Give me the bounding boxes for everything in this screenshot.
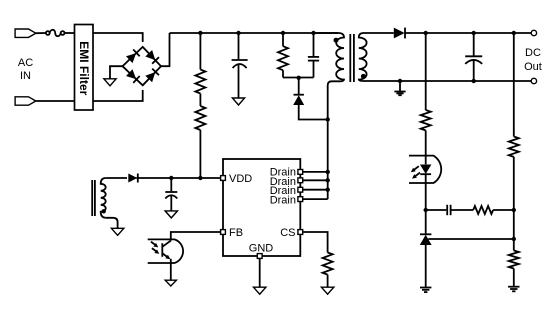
wire EMI top out to bridge top [93,33,143,42]
node startup join [198,176,202,180]
svg-text:FB: FB [229,227,243,239]
node snubber-diode junction [297,76,301,80]
pin GND [257,254,262,259]
resistor R5 LED series [421,110,431,130]
wire aux top to diode [106,177,127,179]
node VDD cap junction [169,176,173,180]
ground (primary, aux) [111,228,123,235]
optocoupler U2 LED side [409,156,441,183]
ground (primary, bus cap) [232,98,244,105]
wire R5 to opto LED [425,130,427,164]
capacitor C4 output [465,33,482,81]
pin Drain4 [298,197,303,202]
aux winding L1 [92,178,106,218]
wire R8 to divider node [493,209,514,211]
ground (primary, bridge) [104,79,116,86]
diode D4 output rectifier [394,28,405,39]
transformer core [349,34,351,82]
bridge rectifier D1 [123,47,162,85]
wire RC join down to clamp diode [298,78,300,95]
wire R1 to R2 [199,94,201,107]
svg-text:IN: IN [20,70,31,82]
wire drain bus vertical [327,85,329,199]
ground (primary, opto emitter) [165,280,176,286]
resistor R2 startup lower [195,106,205,130]
ground (secondary earth) [394,81,405,95]
primary winding [314,33,345,85]
capacitor C5 compensation [426,205,451,215]
wire diode to VDD pin [136,177,220,179]
node drain3 [326,188,330,192]
wire FB to opto collector [171,232,221,241]
node drain2 [326,178,330,182]
svg-text:Out: Out [524,61,542,73]
ground (primary, GND pin) [254,287,266,294]
fuse F1 [46,30,65,36]
node comp junction right [512,208,516,212]
resistor R4 current sense [323,253,333,275]
node clamp/drain junction [326,117,330,121]
svg-text:CS: CS [280,227,295,239]
svg-text:GND: GND [249,243,274,255]
pin CS [298,230,303,235]
resistor R6 divider upper [509,137,519,157]
terminal DC- [531,78,536,83]
wire snubber RC bottom join [283,77,314,79]
node secondary ground tap [398,79,402,83]
wire drain2 [303,179,328,181]
wire secondary bottom rail [364,80,532,82]
resistor R8 compensation [473,206,493,214]
node comp junction left [424,208,428,212]
capacitor C1 bus [232,33,248,98]
wire GND pin down [259,258,261,287]
pin Drain3 [298,187,303,192]
wire drain3 [303,189,328,191]
ground (primary, CS) [321,287,333,294]
wire output rail to DC+ terminal [405,32,531,34]
wire aux bottom to ground [106,218,118,228]
wire R2 down to VDD rail [199,130,201,178]
ground (divider earth) [508,287,519,292]
controller U1 [221,159,303,258]
wire R7 to ground [513,269,515,287]
node output cap top [472,31,476,35]
wire bridge left vertex to ground [110,66,123,78]
node bus cap tap [236,31,240,35]
node opto chain tap [424,31,428,35]
wire J2 to EMI filter [36,100,75,102]
diode D3 aux rectifier [128,174,138,183]
connector J2 AC neutral input [15,97,36,105]
snubber resistor R3 [278,33,288,78]
EMI filter block [75,25,94,111]
resistor R1 startup upper [195,70,205,94]
wire CS to sense resistor [303,232,328,253]
wire drain1 [303,171,328,173]
wire cap to R8 [452,209,474,211]
wire down to R5 [425,33,427,110]
wire EMI bottom out to bridge bottom [93,90,143,101]
wire J1 to fuse [36,32,46,34]
pin Drain1 [298,170,303,175]
pin VDD [221,176,226,181]
node TL431 ref junction [512,237,516,241]
wire TL431 to ground [425,245,427,287]
node snubber R tap [281,31,285,35]
secondary winding [359,33,367,81]
wire R6 to R7 [513,157,515,251]
snubber capacitor C2 [308,33,319,78]
wire bridge right vertex up to bus rail [161,33,170,66]
secondary phase dot [361,74,366,79]
node snubber C tap [311,31,315,35]
svg-text:AC: AC [18,57,33,69]
optocoupler U2 transistor side [148,239,183,263]
svg-text:VDD: VDD [229,173,252,185]
wire fuse to EMI filter [65,32,75,34]
resistor R7 divider lower [509,251,519,269]
transformer T1 [314,33,367,85]
node bus/startup tap [198,31,202,35]
aux phase dot [102,209,106,213]
svg-text:Drain: Drain [270,195,296,207]
primary phase dot [334,38,339,43]
wire clamp diode to drain line [299,105,328,120]
wire opto emitter down [170,259,172,280]
ground (TL431 earth) [420,288,431,293]
diode D2 clamp (pointing up) [293,95,304,105]
wire divider top [513,33,515,137]
node output cap bottom [472,79,476,83]
connector J1 AC line input [15,29,36,37]
svg-text:DC: DC [525,47,541,59]
node drain1 [326,170,330,174]
wire R4 to ground [327,275,329,287]
TL431 U3 [420,234,514,245]
ground (primary, VDD cap) [165,211,177,218]
wire secondary top to output diode [364,32,394,34]
terminal DC+ [531,30,536,35]
bus rail wire [170,32,339,34]
node divider tap [512,31,516,35]
capacitor C3 VDD [165,178,177,211]
pin Drain2 [298,178,303,183]
wire drain4 [303,198,328,200]
svg-text:EMI Filter: EMI Filter [77,41,91,95]
pin FB [221,230,226,235]
wire LED to comp junction [425,174,427,234]
wire bus to R1 [199,33,201,70]
